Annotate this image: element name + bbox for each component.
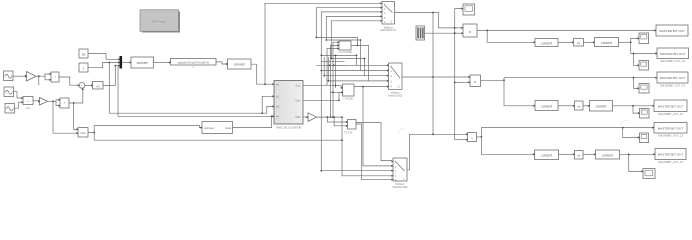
svg-text:SW-19MBIT_OUT_C3: SW-19MBIT_OUT_C3	[658, 135, 683, 138]
svg-text:*: *	[384, 3, 385, 7]
MASTER BIT OUT block 4	[654, 100, 687, 116]
relational operator greater-than	[468, 133, 477, 142]
wire intC to convertC2	[583, 153, 594, 155]
junction dot (433,77)	[432, 76, 434, 78]
product P mid	[470, 75, 481, 87]
svg-text:convert: convert	[541, 104, 552, 108]
sqrt block	[93, 82, 104, 90]
wire long line to subsystem in3	[109, 106, 272, 113]
svg-text:Out1: Out1	[295, 85, 301, 88]
svg-text:Switch1(GS2): Switch1(GS2)	[388, 95, 402, 98]
arrowhead at (345.9,124.8)	[346, 125, 348, 127]
arrowhead at (337.4,41.1)	[337, 41, 339, 43]
junction dot (363,86.6)	[362, 86, 364, 88]
arrowhead at (272.4,105.3)	[272, 105, 274, 107]
arrowhead at (380.4,2.2)	[380, 2, 382, 4]
wire convertB2 to junction	[613, 105, 653, 107]
arrowhead at (641.4,170.3)	[641, 170, 643, 172]
arrowhead at (81.7,90)	[82, 88, 84, 90]
svg-text:MASTER BIT OUT: MASTER BIT OUT	[659, 29, 685, 33]
junction dot (271.6,116.3)	[271, 115, 273, 117]
wire nest loop 2 to switch1 in3	[321, 12, 380, 171]
sum junction circle	[79, 83, 85, 89]
junction dot (335.5,85.3)	[335, 84, 337, 86]
wire sum3 in2 drop from gain3 line	[334, 117, 346, 126]
junction dot (622.7,127.6)	[622, 127, 624, 129]
faint watermark arc right	[620, 121, 629, 126]
junction dot (326.3,40)	[325, 39, 327, 41]
arrowhead at (380.4,10.8)	[380, 11, 382, 13]
junction dot (628.7,154.3)	[628, 153, 630, 155]
wire y55.4 cross line	[321, 54, 356, 56]
wire unprotect out up to in4 junction	[233, 116, 272, 127]
wire convert B down to subsystem in1	[251, 64, 273, 84]
faint watermark arc left	[398, 129, 405, 133]
arrowhead at (572.9,104.7)	[573, 105, 575, 107]
sine wave source 1	[4, 71, 14, 81]
arrowhead at (272.4,83.1)	[272, 83, 274, 85]
wire switch2 in1	[328, 55, 388, 65]
junction dot (321.3,70.5)	[320, 70, 322, 72]
arrowhead at (465.9,133.2)	[466, 133, 468, 135]
wire loop to switch3 in3	[321, 170, 391, 172]
svg-text:180: 180	[81, 52, 86, 56]
junction dot (504,80.3)	[503, 79, 505, 81]
junction dot (327.4,117.1)	[327, 116, 329, 118]
wire switch1 out to P-top in1	[395, 13, 462, 28]
junction dot (38.8,76.2)	[38, 75, 40, 77]
wire sum2 branch down to switch3 in2	[363, 87, 392, 166]
wire long line to subsystem in4	[118, 115, 273, 117]
svg-text:MASTER BIT OUT: MASTER BIT OUT	[660, 52, 686, 56]
junction dot (633.5,77.7)	[633, 77, 635, 79]
svg-text:int: int	[577, 154, 580, 158]
wire subsystem out3 to gain3	[303, 116, 307, 118]
sum block T1+T02	[344, 120, 356, 135]
convert chain row B: int	[575, 101, 584, 110]
convert chain row C: convert	[535, 150, 559, 160]
wire outer loop into subsystem in2	[262, 96, 272, 113]
min block	[78, 128, 88, 138]
arrowhead at (272.4,115.2)	[272, 115, 274, 117]
wire convertC2 to junction	[620, 153, 654, 155]
wire subsystem out1	[303, 85, 341, 88]
wire gain2 junction drop to min in2	[53, 101, 77, 133]
junction dot (324.2,75.7)	[323, 75, 325, 77]
MASTER BIT OUT block 3	[657, 72, 688, 88]
junction dot (360.5,40)	[360, 39, 362, 41]
wire sqrt up to mux in3	[103, 66, 118, 86]
arrowhead at (21.4,101.1)	[21, 101, 23, 103]
svg-text:>: >	[471, 136, 473, 140]
arrowhead at (168.9,61.3)	[169, 61, 171, 63]
svg-text:sqrt(u(1)^2+u(2)^2+u(3)^2): sqrt(u(1)^2+u(2)^2+u(3)^2)	[178, 60, 209, 64]
convert chain row A: convert	[535, 39, 558, 47]
svg-text:SW-19MBIT_OUT_C1: SW-19MBIT_OUT_C1	[660, 85, 685, 88]
MASTER BIT OUT block 5	[654, 123, 687, 138]
arrowhead at (654.4,29.3)	[654, 29, 656, 31]
arrowhead at (652.4,126.5)	[652, 127, 654, 129]
arrowhead at (306.4,116)	[306, 116, 308, 118]
junction dot (328.3,80.9)	[327, 80, 329, 82]
svg-text:MASTER BIT OUT: MASTER BIT OUT	[658, 153, 684, 157]
wire comb vertical x324.2	[323, 57, 325, 76]
svg-text:convert: convert	[234, 63, 245, 67]
junction dot (265,84.2)	[264, 83, 266, 85]
arrowhead at (461.4,26.8)	[461, 27, 463, 29]
arrowhead at (587.9,104.7)	[588, 105, 590, 107]
wire nest loop 1 to switch1 in2	[316, 8, 380, 38]
arrowhead at (118,58.2)	[118, 58, 120, 60]
Fcn block sqrt expression	[171, 59, 217, 70]
svg-text:T1+T02: T1+T02	[344, 133, 353, 135]
svg-text:√u: √u	[96, 85, 100, 89]
multiport switch 3	[392, 158, 408, 189]
small scope E	[640, 133, 649, 143]
arrowhead at (118,64.6)	[118, 65, 120, 67]
svg-text:x: x	[474, 79, 476, 84]
svg-text:*: *	[391, 64, 392, 68]
wire branch down to small scope F	[629, 154, 642, 171]
convert chain row C: int	[575, 151, 584, 160]
wire convertA2 to junction	[619, 41, 631, 43]
junction dot (454.7,27.9)	[454, 27, 456, 29]
MASTER BIT OUT block 1	[656, 25, 688, 36]
arrowhead at (533.4,41.2)	[533, 41, 535, 43]
svg-text:Multiport: Multiport	[396, 183, 405, 186]
wire switch2 in3	[324, 59, 387, 76]
wire y65 cross line	[316, 64, 346, 66]
arrowhead at (468.4,81.2)	[468, 81, 470, 83]
arrowhead at (465.9,138.6)	[466, 139, 468, 141]
svg-text:convert: convert	[137, 61, 148, 65]
small scope A	[639, 33, 649, 44]
data type conversion convert A	[131, 57, 154, 68]
arrowhead at (225.9,62.9)	[226, 63, 228, 65]
convert chain row A: int	[574, 39, 584, 47]
TIME CALCULATION subsystem	[274, 81, 303, 130]
arrowhead at (200.4,126.5)	[200, 127, 202, 129]
junction dot (342,140.2)	[341, 139, 343, 141]
arrowhead at (58.4,104.5)	[58, 105, 60, 107]
svg-text:int: int	[577, 104, 580, 108]
data type conversion convert B	[228, 59, 252, 69]
svg-text:convert: convert	[596, 105, 607, 109]
wire sine2 to sum-of-squares in1	[14, 92, 22, 98]
arrowhead at (391.4,178.6)	[391, 179, 393, 181]
arrowhead at (391.4,164.8)	[391, 165, 393, 167]
wire branch to small scope B	[634, 54, 638, 66]
svg-text:Multiport: Multiport	[384, 26, 393, 29]
svg-text:convert: convert	[541, 42, 552, 46]
junction dot (109.3,62.5)	[108, 62, 110, 64]
wire y58.5 cross line	[331, 58, 364, 60]
wire P2 junction drop to min in1	[74, 103, 77, 129]
wire column vert x335.5 sum2 in1	[335, 55, 337, 88]
svg-text:T1+T2+T0(S): T1+T2+T0(S)	[338, 52, 352, 54]
wire const C2 branch down to long line in3	[108, 63, 110, 114]
junction dot (454.7,82.3)	[454, 81, 456, 83]
junction dot (487.2,30.4)	[486, 30, 488, 32]
arrowhead at (637.9,112)	[638, 112, 640, 114]
wire switch2 in4	[328, 45, 387, 81]
arrowhead at (345.9,120.9)	[346, 121, 348, 123]
arrowhead at (652.4,104.7)	[652, 105, 654, 107]
wire junction up to small scope A	[631, 38, 638, 42]
arrowhead at (593.9,153.2)	[594, 153, 596, 155]
arrowhead at (380.4,19.7)	[380, 20, 382, 22]
multiport switch 1	[380, 2, 396, 33]
arrowhead at (380.4,6.6)	[380, 7, 382, 9]
arrowhead at (637.4,37.3)	[637, 37, 639, 39]
wire column vert x327 sum1 in3	[327, 49, 338, 86]
arrowhead at (129.4,61.4)	[129, 61, 131, 63]
wire switch3 out up to greater-than in1	[407, 134, 466, 170]
wire column vert x333 sum1 in1 and sum3 in1	[333, 42, 338, 117]
svg-text:TIME CALCULATION: TIME CALCULATION	[276, 125, 302, 129]
arrowhead at (571.9,41.2)	[572, 41, 574, 43]
arrowhead at (386.9,85.5)	[387, 86, 389, 88]
wire P-top branch down to convert row A	[487, 30, 533, 42]
svg-text:Out3: Out3	[295, 116, 301, 119]
wire convert A to Fcn	[154, 61, 170, 63]
junction dot (334.1,117.1)	[333, 116, 335, 118]
arrowhead at (637.9,136.4)	[638, 136, 640, 138]
svg-text:SW-19MBIT_OUT_C0: SW-19MBIT_OUT_C0	[660, 60, 685, 63]
arrowhead at (532.9,153.2)	[533, 153, 535, 155]
wire column vert x330.5 sum1 in2	[331, 45, 338, 117]
arrowhead at (655.4,52.4)	[655, 52, 657, 54]
wire sum circle to sqrt	[85, 84, 91, 86]
arrowhead at (38,100.1)	[38, 100, 40, 102]
arrowhead at (386.9,64.2)	[387, 64, 389, 66]
wire convertB1 to intB	[558, 105, 573, 107]
wire intB to convertB2	[583, 105, 588, 107]
wire vertical x454.7 scope feed	[455, 9, 462, 140]
junction dot (630.7,42.3)	[630, 41, 632, 43]
wire mux to convert A	[122, 62, 130, 64]
wire subsystem out2	[303, 99, 339, 101]
arrowhead at (572.9,153.2)	[573, 153, 575, 155]
wire y61.7 cross line	[321, 61, 344, 63]
wire min out branch down long line to sum3 in2	[94, 133, 342, 141]
gain G3 triangle	[308, 113, 317, 122]
mux bar	[120, 56, 123, 69]
arrowhead at (637.4,87.3)	[637, 87, 639, 89]
arrowhead at (76.4,132.1)	[76, 132, 78, 134]
arrowhead at (272.4,95.2)	[272, 95, 274, 97]
wire convertC1 to intC	[559, 153, 574, 155]
wire sum-of-squares to gain2	[33, 100, 38, 102]
svg-text:Switch2(GSYT): Switch2(GSYT)	[380, 29, 396, 32]
arrowhead at (533.4,104.7)	[533, 105, 535, 107]
svg-text:MASTER BIT OUT: MASTER BIT OUT	[658, 105, 684, 109]
junction dot (94.2,132.5)	[93, 132, 95, 134]
junction dot (333,117.1)	[332, 116, 334, 118]
arrowhead at (49.4,72.9)	[49, 73, 51, 75]
svg-text:int: int	[577, 41, 580, 45]
wire into P-top in2	[455, 32, 462, 34]
junction dot (321.3,55.4)	[320, 55, 322, 57]
MASTER BIT OUT block 6	[655, 149, 686, 165]
sum of squares block S1	[23, 97, 33, 110]
sum block T1+T2(S)	[343, 84, 355, 101]
repeating stair block	[416, 26, 425, 40]
wire outer loop top to switch1 in1	[265, 3, 381, 84]
wire stair out to vertical	[425, 32, 455, 34]
svg-text:MASTER BIT OUT: MASTER BIT OUT	[658, 127, 684, 131]
gain G1 triangle	[27, 72, 37, 82]
convert chain row C: convert2	[596, 150, 620, 159]
wire column vert x339 sum2 in2	[331, 92, 341, 100]
wire min out branch up to unprotect input line	[88, 126, 201, 133]
arrowhead at (391.4,160.2)	[391, 160, 393, 162]
small scope C	[639, 84, 649, 94]
wire switch1 branch down x433	[432, 13, 434, 135]
wire branch down to small scope E	[623, 128, 638, 138]
arrowhead at (118,61.4)	[118, 61, 120, 63]
svg-text:SW-19MBIT_OUT_C2: SW-19MBIT_OUT_C2	[658, 113, 683, 116]
small scope F	[643, 169, 655, 179]
wire junction down to MASTER2	[631, 42, 656, 53]
unprotect mode block	[202, 122, 233, 134]
arrowhead at (21.4,96.9)	[21, 97, 23, 99]
arrowhead at (76.4,128.3)	[76, 128, 78, 130]
convert chain row B: convert	[535, 101, 558, 111]
junction dot (329.6,65.3)	[329, 64, 331, 66]
constant C2	[79, 63, 88, 72]
junction dot (356.5,55.4)	[356, 55, 358, 57]
arrowhead at (391.4,169.6)	[391, 170, 393, 172]
arrowhead at (386.9,74.6)	[387, 75, 389, 77]
wire P-mid out to junction	[481, 78, 505, 81]
junction dot (433,134.3)	[432, 133, 434, 135]
sine wave source 3	[5, 104, 15, 114]
svg-text:convert: convert	[601, 41, 612, 45]
arrowhead at (340.9,86.8)	[341, 87, 343, 89]
scope block	[463, 4, 475, 15]
junction dot (262.2,113.2)	[261, 112, 263, 114]
wire convertA1 to intA	[558, 41, 572, 43]
arrowhead at (655.4,76.6)	[655, 77, 657, 79]
wire gain2 to product P2 with branch loop	[48, 100, 59, 106]
svg-text:Multiport: Multiport	[391, 92, 400, 95]
wire branch down to small scope D	[633, 106, 638, 113]
sum block T1+T2+T0(S)	[338, 41, 352, 54]
wire nest loop 4 to switch1 in5	[331, 21, 380, 59]
wire gain1 to product P1 with branch loop	[36, 74, 50, 80]
arrowhead at (468.4,75.9)	[468, 76, 470, 78]
junction dot (316.3,37.5)	[315, 37, 317, 39]
wire sqrt branch down to long line in4	[117, 66, 119, 117]
wire greater-than branch down to convert row C	[481, 137, 533, 154]
junction dot (115.3,65.7)	[114, 65, 116, 67]
wire up to MASTER5 long	[481, 128, 652, 137]
wire P-mid in2 from vertical	[455, 81, 469, 83]
svg-text:convert: convert	[602, 153, 613, 157]
junction dot (335.5,55.4)	[335, 55, 337, 57]
wire gain3 out to column	[317, 116, 343, 118]
arrowhead at (337.4,47.4)	[337, 47, 339, 49]
junction dot (339,100.3)	[338, 99, 340, 101]
junction dot (633.5,53.5)	[633, 53, 635, 55]
small scope B	[639, 61, 649, 71]
wire greater-than out junction	[477, 136, 482, 138]
junction dot (454.7,33.2)	[454, 32, 456, 34]
arrowhead at (380.4,15.3)	[380, 15, 382, 17]
junction dot (333.7,65.3)	[333, 64, 335, 66]
arrowhead at (58.4,98.7)	[58, 99, 60, 101]
wire y40 cross line	[326, 39, 360, 41]
svg-text:mode: mode	[225, 127, 232, 130]
junction dot (53,101.3)	[52, 100, 54, 102]
junction dot (364.5,58.5)	[364, 58, 366, 60]
junction dot (357.5,45.4)	[357, 45, 359, 47]
wire gain1 junction drop to sum path	[38, 76, 40, 85]
junction dot (330.6,117.1)	[330, 116, 332, 118]
arrowhead at (337.4,44.3)	[337, 44, 339, 46]
product P1 (u squared)	[51, 72, 59, 82]
arrowhead at (91,84.3)	[91, 84, 93, 86]
MASTER BIT OUT block 2	[657, 48, 689, 63]
svg-text:convert: convert	[541, 154, 552, 158]
arrowhead at (386.9,69.4)	[387, 69, 389, 71]
product P top	[463, 24, 477, 37]
wire constant C1 to mux in1	[88, 54, 118, 60]
junction dot (321.3,170.7)	[320, 170, 322, 172]
svg-text:unprotect: unprotect	[204, 127, 215, 130]
junction dot (73.6,103)	[73, 102, 75, 104]
wire constant C2 to mux in2	[88, 63, 118, 68]
arrowhead at (340.9,91.2)	[341, 91, 343, 93]
product P2 (u squared)	[60, 98, 69, 108]
gain G2 triangle	[40, 98, 48, 106]
wire nest loop 3 to switch1 in4	[326, 16, 380, 40]
convert chain row A: convert2	[595, 38, 619, 47]
svg-text:SW-19MBIT_OUT_C4: SW-19MBIT_OUT_C4	[658, 161, 683, 164]
wire sine1 to gain1	[13, 75, 25, 77]
wire sum3 out to switch3 in5	[356, 124, 392, 180]
arrowhead at (391.4,174.7)	[391, 175, 393, 177]
wire Fcn to convert B	[216, 62, 226, 64]
wire switch2 out to P-mid in1	[402, 76, 469, 78]
svg-text:x: x	[469, 29, 471, 34]
wire sum1 out up loop	[316, 38, 357, 46]
wire gain3 line down to switch3 in4	[342, 117, 392, 176]
sine wave source 2	[4, 87, 14, 97]
wire sine3 to sum-of-squares in2	[15, 102, 22, 108]
svg-text:Out2: Out2	[295, 100, 301, 103]
svg-text:+: +	[80, 84, 82, 88]
wire P-mid branch down to convert row B	[504, 80, 534, 106]
junction dot (433,12.5)	[432, 12, 434, 14]
arrowhead at (49.4,78.7)	[49, 79, 51, 81]
junction dot (333,92.3)	[332, 91, 334, 93]
wire sum3 in1 drop from gain3 line	[327, 117, 346, 122]
wire P1 to sum circle	[59, 77, 78, 85]
arrowhead at (637.4,64.2)	[637, 64, 639, 66]
svg-text:BIT Trace: BIT Trace	[153, 20, 166, 24]
wire long to MASTER3	[504, 77, 656, 79]
arrowhead at (592.9,41.2)	[593, 41, 595, 43]
wire P2 to sum circle bottom	[69, 90, 83, 103]
arrowhead at (461.4,7.5)	[461, 8, 463, 10]
arrowhead at (653.4,153.2)	[653, 153, 655, 155]
wire intA to convertA2	[584, 41, 594, 43]
arrowhead at (77.6,84.3)	[78, 84, 80, 86]
arrowhead at (461.4,32.1)	[461, 32, 463, 34]
junction dot (481.4,136.9)	[481, 136, 483, 138]
